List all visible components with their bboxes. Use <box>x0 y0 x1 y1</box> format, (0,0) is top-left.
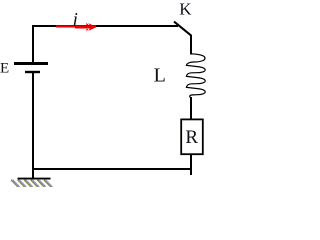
wire: left vertical bottom segment (battery to ground) <box>32 73 34 178</box>
wire: top horizontal from left corner to switch <box>32 25 178 27</box>
resistor R: box <box>181 119 203 154</box>
svg-text:i: i <box>73 9 78 30</box>
wire: bottom horizontal <box>32 168 192 170</box>
wire: left vertical top segment (corner to battery top plate) <box>32 25 34 62</box>
inductor L: coil <box>186 54 205 98</box>
wire: right vertical (switch to coil) <box>190 35 192 55</box>
ground: hatching <box>11 180 52 187</box>
battery E: top (long, thick) plate <box>14 62 48 65</box>
ground: bar <box>18 178 51 180</box>
current arrow i (red) on top wire <box>56 23 97 31</box>
svg-text:E: E <box>0 61 9 77</box>
wire: coil to resistor <box>190 97 192 119</box>
wire: resistor to bottom wire (with small tail below) <box>190 155 192 175</box>
switch K: blade <box>174 22 191 36</box>
svg-text:R: R <box>185 127 198 148</box>
svg-text:K: K <box>179 0 192 19</box>
battery E: bottom (short) plate <box>25 71 40 73</box>
svg-text:L: L <box>154 65 166 87</box>
